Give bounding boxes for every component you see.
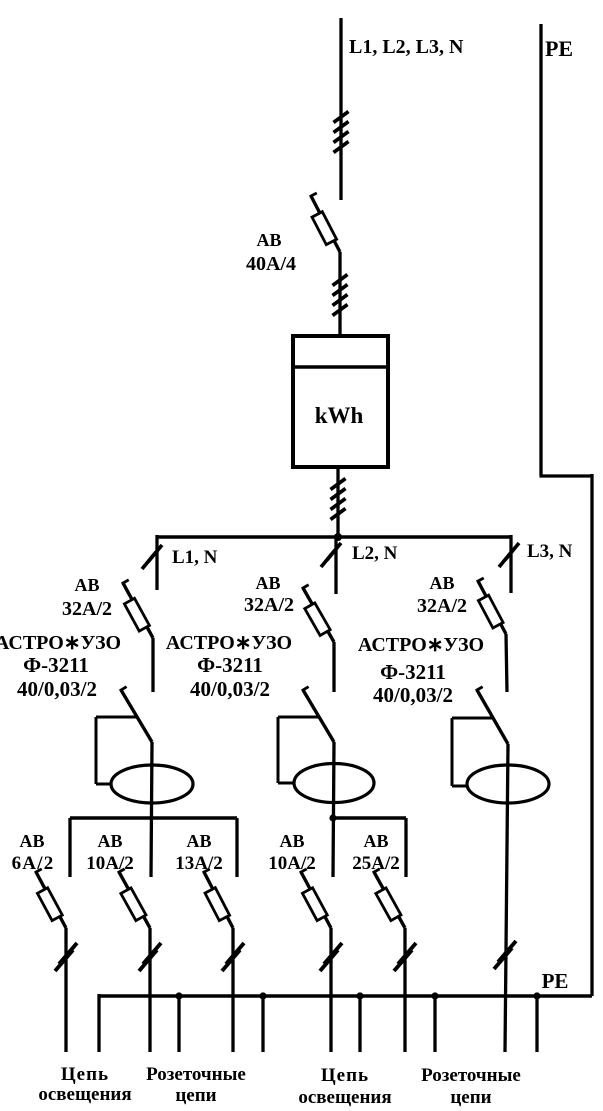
- svg-text:L1, N: L1, N: [172, 547, 218, 568]
- svg-text:40/0,03/2: 40/0,03/2: [373, 683, 453, 707]
- svg-text:32А/2: 32А/2: [62, 598, 112, 620]
- PE bottom bus: [99, 994, 592, 998]
- svg-text:Ф-3211: Ф-3211: [23, 653, 89, 677]
- circuit breaker AB 10A/2 (L2): [300, 869, 331, 928]
- wire: lighting circuit 1 down: [64, 928, 67, 1052]
- svg-text:АВ: АВ: [19, 831, 44, 851]
- wire: L3 branch drop: [509, 535, 512, 593]
- svg-text:40/0,03/2: 40/0,03/2: [190, 677, 270, 701]
- node: PE tap at x=179: [175, 992, 182, 999]
- wire: L3 RCD output (socket circuits feed): [505, 744, 508, 1052]
- conductor marks (4) meter output: [331, 479, 346, 520]
- svg-text:L1, L2, L3, N: L1, L2, L3, N: [349, 36, 464, 58]
- svg-text:АСТРО∗УЗО: АСТРО∗УЗО: [358, 634, 484, 656]
- svg-text:АВ: АВ: [279, 831, 304, 851]
- wire: socket circuit 3 down: [403, 928, 406, 1052]
- distribution bus (phase split): [157, 535, 510, 539]
- wire: L1 breaker to RCD: [151, 638, 154, 692]
- svg-text:освещения: освещения: [38, 1084, 131, 1105]
- wire: PE tap drop x=537: [535, 996, 538, 1052]
- circuit breaker AB 25A/2: [373, 869, 405, 928]
- RCD current transformer torus (L2): [294, 764, 374, 803]
- svg-text:Ф-3211: Ф-3211: [197, 653, 263, 677]
- svg-text:10А/2: 10А/2: [86, 853, 134, 874]
- node: L2 group junction: [329, 814, 336, 821]
- wire: L3 breaker to RCD: [506, 634, 507, 692]
- conductor marks (2) circuit 3: [222, 943, 244, 971]
- conductor marks (2) circuit 5: [394, 943, 416, 971]
- PE riser jog: [540, 474, 593, 477]
- wire: incoming feeder L1,L2,L3,N: [339, 18, 342, 200]
- RCD switch blade (L2): [302, 687, 334, 742]
- svg-text:kWh: kWh: [315, 403, 364, 428]
- node: PE tap at x=435: [431, 992, 438, 999]
- svg-text:PE: PE: [545, 36, 573, 61]
- RCD test loop (L2): [278, 716, 319, 719]
- svg-text:32А/2: 32А/2: [417, 595, 467, 617]
- conductor marks (2) circuit 4: [320, 943, 342, 971]
- RCD test loop (L1): [96, 716, 137, 719]
- wire: breaker to kWh meter: [338, 252, 341, 337]
- wire: L1 branch drop: [155, 535, 158, 590]
- svg-text:цепи: цепи: [450, 1087, 491, 1108]
- svg-text:PE: PE: [542, 969, 569, 993]
- circuit breaker AB 32A/2 (L1): [122, 580, 153, 638]
- wire: L2 RCD output through torus: [333, 742, 334, 877]
- svg-text:Ф-3211: Ф-3211: [380, 660, 446, 684]
- svg-text:Цепь: Цепь: [321, 1065, 369, 1086]
- svg-text:цепи: цепи: [175, 1085, 216, 1106]
- kWh meter M1: [293, 336, 388, 467]
- RCD current transformer torus (L1): [111, 765, 193, 803]
- circuit breaker AB 6A/2: [35, 869, 66, 928]
- wire: PE tap drop x=435: [433, 996, 436, 1052]
- svg-text:Цепь: Цепь: [61, 1064, 109, 1085]
- conductor marks (2) L1 branch: [142, 545, 162, 569]
- conductor marks (4) on incoming feeder: [334, 112, 349, 153]
- svg-text:АВ: АВ: [256, 230, 281, 250]
- wire: L2 group bus right drop: [404, 818, 407, 877]
- conductor marks (4) breaker-to-meter: [333, 275, 348, 316]
- svg-text:освещения: освещения: [298, 1087, 391, 1108]
- circuit breaker AB 32A/2 (L2): [302, 585, 334, 642]
- L1 group bus: [70, 816, 237, 819]
- conductor marks (2) circuit 6: [494, 941, 516, 969]
- wire: PE tap drop x=179: [177, 996, 180, 1052]
- wire: L2 breaker to RCD: [332, 642, 335, 692]
- circuit breaker AB 32A/2 (L3): [477, 578, 506, 634]
- PE riser (right side): [590, 474, 593, 996]
- wire: PE tap drop x=263: [261, 996, 264, 1052]
- svg-text:13А/2: 13А/2: [175, 853, 223, 874]
- node: PE tap at x=360: [356, 992, 363, 999]
- wire: L1 group bus left drop: [68, 818, 71, 877]
- svg-text:АВ: АВ: [363, 831, 388, 851]
- svg-text:АВ: АВ: [74, 575, 99, 595]
- RCD current transformer torus (L3): [467, 765, 549, 803]
- svg-text:L3, N: L3, N: [527, 541, 573, 562]
- wire: socket circuit 1 down: [148, 928, 151, 1052]
- wire: L2 branch drop: [334, 537, 337, 594]
- wire: PE bus left end drop: [97, 994, 100, 1052]
- wire: PE tap drop x=360: [358, 996, 361, 1052]
- wire: meter to distribution bus: [336, 468, 339, 539]
- circuit breaker AB 40A/4: [310, 193, 340, 252]
- svg-text:АВ: АВ: [429, 573, 454, 593]
- svg-text:АВ: АВ: [97, 831, 122, 851]
- svg-text:40/0,03/2: 40/0,03/2: [17, 677, 97, 701]
- svg-text:АВ: АВ: [186, 831, 211, 851]
- RCD switch blade (L1): [120, 687, 152, 742]
- svg-text:АСТРО∗УЗО: АСТРО∗УЗО: [166, 632, 292, 654]
- svg-text:L2, N: L2, N: [352, 543, 398, 564]
- svg-text:10А/2: 10А/2: [268, 853, 316, 874]
- svg-text:АСТРО∗УЗО: АСТРО∗УЗО: [0, 632, 121, 654]
- svg-text:32А/2: 32А/2: [244, 594, 294, 616]
- node: bus feed junction: [334, 533, 342, 541]
- svg-text:Розеточные: Розеточные: [421, 1065, 521, 1086]
- circuit breaker AB 13A/2: [203, 869, 233, 928]
- svg-text:АВ: АВ: [255, 573, 280, 593]
- conductor marks (2) circuit 1: [55, 943, 77, 971]
- conductor marks (2) L2 branch: [321, 543, 341, 567]
- wire: L1 group bus right drop: [235, 818, 238, 877]
- svg-text:40А/4: 40А/4: [246, 253, 296, 275]
- RCD switch blade (L3): [476, 687, 508, 744]
- PE riser (top): [539, 24, 542, 476]
- conductor marks (2) circuit 2: [139, 943, 161, 971]
- svg-text:Розеточные: Розеточные: [146, 1064, 246, 1085]
- wire: L1 RCD output through torus: [151, 742, 152, 877]
- RCD test loop (L3): [452, 717, 493, 720]
- conductor marks (2) L3 branch: [499, 543, 519, 567]
- wire: socket circuit 2 down: [231, 928, 234, 1052]
- circuit breaker AB 10A/2 (L1): [118, 869, 150, 928]
- wire: lighting circuit 2 down: [329, 928, 332, 1052]
- node: PE tap at x=263: [259, 992, 266, 999]
- node: PE tap at x=537: [533, 992, 540, 999]
- L2 group bus: [333, 816, 406, 819]
- svg-text:6А/2: 6А/2: [12, 853, 55, 874]
